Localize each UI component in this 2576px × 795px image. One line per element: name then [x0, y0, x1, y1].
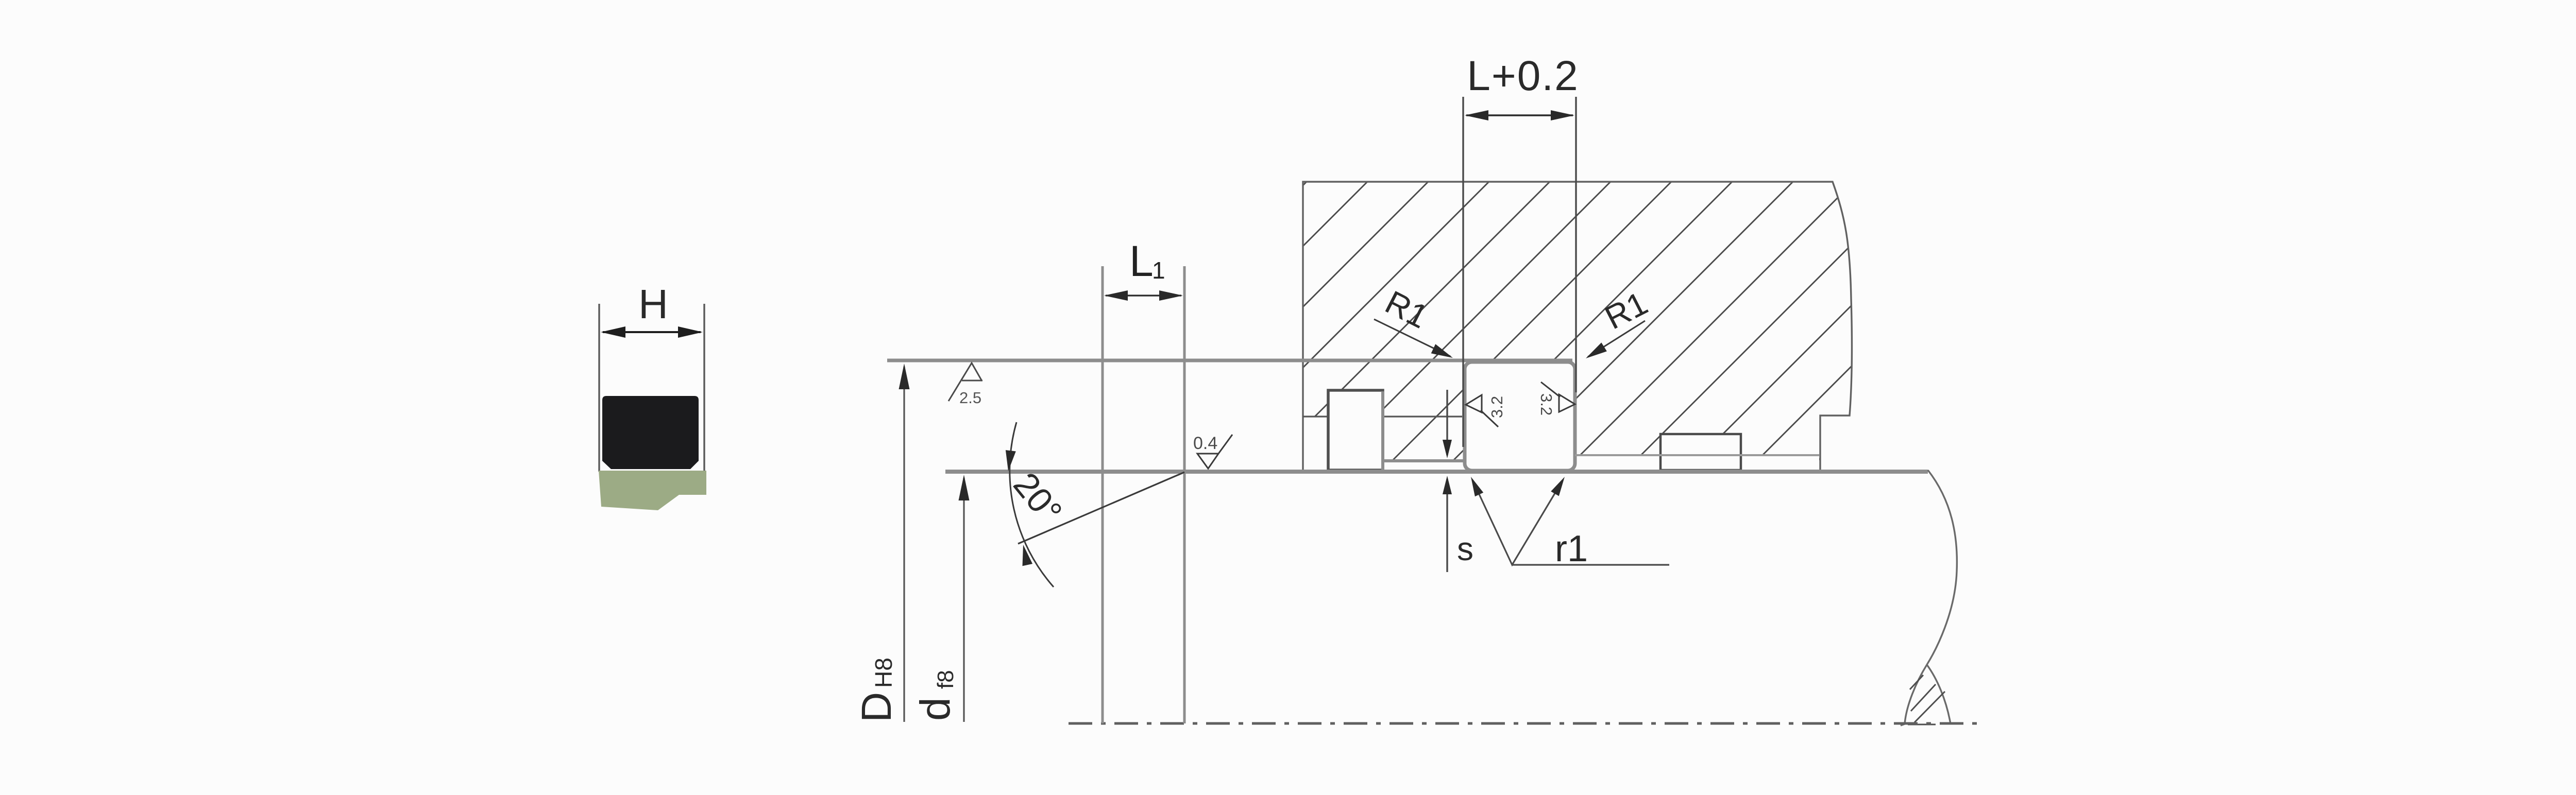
- svg-text:r1: r1: [1555, 528, 1588, 569]
- svg-text:f8: f8: [933, 670, 958, 689]
- svg-text:3.2: 3.2: [1488, 396, 1506, 418]
- svg-text:L: L: [1129, 237, 1154, 285]
- svg-text:d: d: [912, 697, 959, 721]
- svg-text:0.4: 0.4: [1193, 434, 1217, 453]
- svg-text:H8: H8: [870, 658, 897, 688]
- svg-text:1: 1: [1152, 257, 1165, 284]
- svg-text:3.2: 3.2: [1537, 393, 1555, 416]
- svg-text:s: s: [1457, 530, 1473, 567]
- svg-text:D: D: [853, 692, 900, 722]
- svg-text:2.5: 2.5: [959, 389, 981, 407]
- svg-text:H: H: [638, 281, 668, 327]
- svg-text:L+0.2: L+0.2: [1467, 53, 1579, 99]
